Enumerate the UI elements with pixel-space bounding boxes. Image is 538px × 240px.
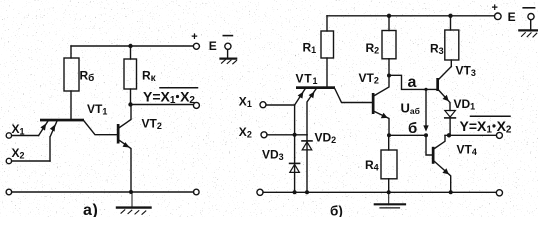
ground a [117,192,151,214]
resistor R4 [365,135,397,192]
diode VD3 [262,105,300,192]
transistor VT1 (multi-emitter) [39,102,117,161]
svg-text:E: E [209,39,217,53]
terminal -E b with ground [519,8,538,37]
terminal bottom-right a [194,189,200,195]
transistor VT1 b (multi-emitter) [295,72,372,135]
terminal bottom-left a [6,189,12,195]
terminal input X1 a [6,122,38,138]
resistor Rk [124,46,157,105]
terminal input X1 b [239,95,295,110]
transistor VT2 a [117,105,162,192]
transistor VT2 b [359,71,390,134]
terminal input X2 a [6,146,50,164]
diode VD2 [302,131,336,193]
wire output a [131,104,194,106]
voltage arrow U_ab [401,88,429,132]
svg-text:а): а) [83,202,98,217]
label Y=X1·X2 a [143,88,198,106]
terminal input X2 b [239,125,307,140]
node VD2 on rail [305,190,309,194]
wire node b [389,135,432,155]
transistor VT4 [432,136,477,193]
wire top rail a [71,45,193,47]
ground b [375,192,405,208]
diode VD1 [445,97,475,135]
terminal +E b [492,2,516,24]
svg-text:б): б) [330,204,343,218]
svg-text:б: б [408,120,417,137]
terminal +E a [191,31,217,53]
node R3 top [448,14,452,18]
node VT4 emitter on rail [449,190,453,194]
node junction VT2 emitter / R4 [387,133,391,137]
terminal -E a with ground [221,36,237,64]
transistor VT3 [436,64,476,111]
svg-text:Y=X1·X2: Y=X1·X2 [143,89,195,107]
resistor R2 [366,16,397,74]
wire bottom rail a [12,191,194,193]
terminal bottom-right b [496,190,502,196]
wire top rail b [327,15,494,17]
node collector VT2 / output wire a [128,102,132,106]
svg-text:Y=X1·X2: Y=X1·X2 [460,118,512,136]
node R4 on rail [387,190,391,194]
terminal output Y b [496,132,502,138]
svg-text:+: + [492,2,498,14]
wire node a to VT3 base [389,75,436,89]
terminal output Y a [193,102,199,108]
svg-text:+: + [191,31,197,43]
node VD3 on rail [293,190,297,194]
node b dot [424,133,428,137]
svg-text:a: a [408,74,417,91]
node R2 top [387,14,391,18]
wire bottom rail b [263,191,496,193]
resistor R6 (Rб) [64,46,94,119]
svg-text:E: E [508,10,516,24]
node a junction (VT2 collector / R2) [387,74,391,78]
node emitter VT2 on rail [129,190,133,194]
node junction Rk top [128,44,132,48]
wire output b [445,134,496,136]
resistor R1 [303,16,334,87]
resistor R3 [430,16,459,67]
terminal bottom-left b [257,189,263,195]
label Y=X1·X2 b [460,116,512,135]
node output junction [447,133,451,137]
